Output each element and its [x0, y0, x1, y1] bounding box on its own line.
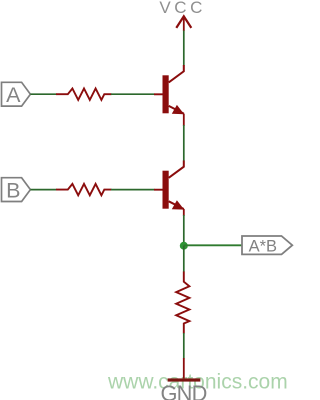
ground	[160, 358, 206, 400]
supply VCC arrow	[176, 16, 191, 31]
wire VCC to Q1 collector	[183, 31, 185, 66]
wire R3 to GND	[183, 333, 185, 359]
watermark	[107, 371, 288, 394]
label A*B	[249, 237, 277, 255]
resistor R2	[56, 184, 112, 195]
svg-text:VCC: VCC	[159, 0, 206, 17]
resistor R3	[176, 272, 189, 334]
label B	[6, 178, 20, 202]
wire Q2 emitter to output node	[183, 215, 185, 246]
wire R1 to Q1 base	[111, 93, 155, 95]
svg-text:A*B: A*B	[249, 237, 277, 255]
node output junction	[180, 242, 188, 250]
svg-text:GND: GND	[160, 381, 206, 400]
supply VCC label	[159, 0, 206, 17]
resistor R1	[56, 89, 112, 100]
connector A	[2, 82, 31, 106]
wire Q1 emitter to Q2 collector	[183, 125, 185, 161]
transistor Q1	[154, 65, 184, 126]
wire B to R2	[30, 189, 56, 191]
transistor Q2	[154, 161, 184, 217]
connector B	[2, 178, 31, 202]
wire R2 to Q2 base	[111, 189, 155, 191]
svg-text:B: B	[6, 178, 20, 202]
label A	[6, 83, 21, 107]
svg-text:A: A	[6, 83, 21, 107]
wire junction to A*B	[184, 244, 242, 246]
wire A to R1	[30, 93, 56, 95]
wire junction to R3	[183, 246, 185, 272]
connector A*B	[242, 236, 292, 254]
